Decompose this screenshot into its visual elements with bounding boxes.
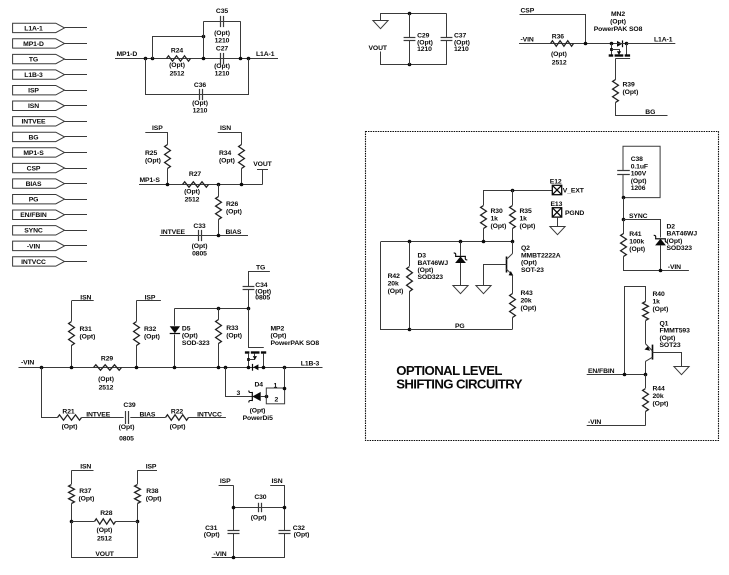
capacitor C30 [258,503,260,512]
svg-text:-VIN: -VIN [27,243,40,250]
wire Q2 base to ground [484,265,507,286]
wire -VIN to MN2 [519,43,612,45]
svg-text:(Opt): (Opt) [629,246,645,253]
junction R33 top [217,307,221,311]
svg-text:TG: TG [29,56,38,63]
wire C35 right leg [240,21,242,58]
svg-text:D3: D3 [418,253,427,260]
svg-text:(Opt): (Opt) [192,243,208,250]
junction R27 right [217,183,221,187]
svg-text:20k: 20k [653,393,664,400]
svg-text:R21: R21 [62,409,74,416]
capacitor C34 [248,272,250,287]
svg-text:100V: 100V [631,171,647,178]
svg-text:(Opt): (Opt) [251,514,267,521]
svg-text:C33: C33 [193,223,205,230]
svg-text:C29: C29 [417,33,429,40]
wire R21 bracket [42,368,58,418]
junction R26 bottom [217,234,221,238]
junction C27 right [239,57,243,61]
svg-text:VOUT: VOUT [369,45,388,52]
svg-text:(Opt): (Opt) [418,267,434,274]
svg-text:PowerDi5: PowerDi5 [243,415,273,422]
svg-text:(Opt): (Opt) [491,223,507,230]
svg-text:R31: R31 [80,326,92,333]
junction R42 bottom [408,328,412,332]
svg-text:2512: 2512 [552,60,567,67]
svg-text:2512: 2512 [99,384,114,391]
svg-text:R22: R22 [171,409,183,416]
svg-text:SOT23: SOT23 [660,342,681,349]
svg-text:3: 3 [236,390,240,397]
svg-text:D2: D2 [667,223,676,230]
svg-text:R41: R41 [629,231,641,238]
svg-text:R30: R30 [491,208,503,215]
resistor R39 [613,80,619,103]
svg-text:INTVCC: INTVCC [21,259,46,266]
svg-text:CSP: CSP [521,7,535,14]
svg-text:PowerPAK SO8: PowerPAK SO8 [271,340,320,347]
svg-text:MP1-D: MP1-D [117,51,138,58]
svg-text:VOUT: VOUT [95,551,114,558]
svg-text:BAT46WJ: BAT46WJ [418,260,449,267]
junction R30 bottom [482,240,486,244]
svg-text:2512: 2512 [185,197,200,204]
capacitor C31 [228,530,240,532]
diode D3 BAT46WJ [460,242,462,256]
svg-text:R33: R33 [226,325,238,332]
wire C38 to SYNC [623,198,625,220]
wire BIAS segment [130,417,165,419]
svg-text:PowerPAK SO8: PowerPAK SO8 [594,26,643,33]
capacitor C27 [220,53,222,64]
junction C35 branch [202,35,206,39]
svg-text:(Opt): (Opt) [219,158,235,165]
junction R24 right [202,57,206,61]
wire gnd top rail [380,13,447,15]
junction L1A-1 branch [247,57,251,61]
resistor R41 [623,220,625,234]
net flag BIAS [13,179,65,188]
svg-text:ISN: ISN [28,103,39,110]
resistor R25 [167,132,169,144]
junction C38 bottom [622,196,626,200]
svg-text:(Opt): (Opt) [610,19,626,26]
net flag CSP [13,163,65,172]
svg-text:(Opt): (Opt) [145,158,161,165]
junction C29 bottom [408,63,412,67]
resistor R21 [58,415,82,420]
resistor R28 [95,519,116,524]
junction D5 bottom [173,366,177,370]
resistor R24 [167,56,191,61]
svg-text:0805: 0805 [255,295,270,302]
svg-text:100k: 100k [629,238,644,245]
junction R32 bottom [135,366,139,370]
svg-text:C35: C35 [216,8,228,15]
junction R35 top [511,189,515,193]
net flag ISP [13,85,65,94]
resistor R30 [483,190,485,205]
transistor MP2 [248,308,250,347]
svg-text:MP1-S: MP1-S [23,150,44,157]
svg-text:C38: C38 [631,156,643,163]
svg-text:R42: R42 [388,273,400,280]
svg-text:PGND: PGND [565,210,584,217]
svg-text:(Opt): (Opt) [97,527,113,534]
junction C29 top [408,12,412,16]
wire PG bottom rail [410,329,513,331]
junction MP1-D a [144,57,148,61]
svg-text:(Opt): (Opt) [169,62,185,69]
svg-text:TG: TG [256,264,265,271]
junction MP1-D b [151,57,155,61]
svg-text:(Opt): (Opt) [250,407,266,414]
svg-text:PG: PG [455,323,465,330]
resistor R35 [512,190,514,205]
svg-text:BAT46WJ: BAT46WJ [667,231,698,238]
wire MN2 to L1A-1 [627,43,676,45]
svg-text:R34: R34 [219,150,231,157]
junction D4 box top [283,387,287,391]
svg-text:2512: 2512 [97,535,112,542]
svg-text:0805: 0805 [192,251,207,258]
svg-text:(Opt): (Opt) [631,178,647,185]
svg-text:VOUT: VOUT [253,161,272,168]
svg-text:(Opt): (Opt) [653,400,669,407]
wire MN2 gate to R39 [615,58,617,79]
wire CSP [520,15,586,44]
svg-text:ISN: ISN [80,463,91,470]
wire ISN column [284,485,286,530]
svg-text:1210: 1210 [454,46,469,53]
svg-text:(Opt): (Opt) [146,495,162,502]
svg-text:ISP: ISP [220,478,231,485]
resistor R43 [510,294,516,318]
net flag PG [13,194,65,203]
diode D2 BAT46WJ [655,239,666,246]
ground D3 [453,286,468,294]
net flag BG [13,132,65,141]
svg-text:R27: R27 [189,171,201,178]
svg-text:R36: R36 [552,33,564,40]
net flag -VIN [13,241,65,250]
svg-text:(Opt): (Opt) [214,30,230,37]
junction SYNC [622,218,626,222]
wire MP1-D main line [115,58,278,60]
wire PG rail2 [381,241,513,243]
resistor R40 [643,302,649,321]
diode D4 branch wire [226,368,253,397]
svg-text:D4: D4 [255,382,264,389]
resistor R29 [94,365,122,370]
svg-text:(Opt): (Opt) [79,495,95,502]
junction R34 bottom [240,183,244,187]
ground Q1 base [674,367,689,375]
wire rail2 left leg [381,242,410,330]
wire VOUT bottom rail [381,52,447,65]
capacitor C29 [409,14,411,38]
resistor R36 [551,41,574,46]
net flag ISN [13,101,65,110]
svg-text:(Opt): (Opt) [653,306,669,313]
wire INTVEE to C39 [82,417,124,419]
svg-text:(Opt): (Opt) [80,334,96,341]
svg-text:BG: BG [645,109,655,116]
svg-text:ISN: ISN [272,478,283,485]
svg-text:MN2: MN2 [611,11,625,18]
svg-text:2: 2 [274,397,278,404]
svg-text:R38: R38 [146,488,158,495]
net flag TG [13,54,65,63]
resistor R37 [71,470,73,484]
svg-text:INTVEE: INTVEE [161,229,186,236]
svg-text:20k: 20k [388,281,399,288]
svg-text:(Opt): (Opt) [182,333,198,340]
svg-text:(Opt): (Opt) [62,423,78,430]
wire -VIN enfbin [587,425,646,427]
junction R38 R28 [136,520,140,524]
svg-text:ISP: ISP [152,125,163,132]
capacitor C39 [125,411,127,424]
svg-text:-VIN: -VIN [213,551,226,558]
svg-text:(Opt): (Opt) [170,423,186,430]
svg-text:(Opt): (Opt) [388,288,404,295]
svg-text:(Opt): (Opt) [551,51,567,58]
svg-text:SYNC: SYNC [24,228,43,235]
wire V_EXT rail [484,190,553,192]
svg-text:MMBT2222A: MMBT2222A [521,252,561,259]
svg-text:R40: R40 [653,291,665,298]
dashed box optional level shifting circuitry [366,132,719,441]
svg-text:1210: 1210 [417,46,432,53]
junction C30 right [283,506,287,510]
svg-text:V_EXT: V_EXT [563,188,585,195]
svg-text:1210: 1210 [215,37,230,44]
net flag INTVEE [13,117,65,126]
wire C30 line [233,507,285,509]
svg-text:SOD323: SOD323 [667,245,693,252]
wire EN/FBIN [587,374,646,376]
svg-text:Q2: Q2 [521,245,530,252]
svg-text:(Opt): (Opt) [667,238,683,245]
resistor R44 [645,375,647,389]
svg-text:BIAS: BIAS [226,229,242,236]
junction R25 bottom [166,183,170,187]
svg-text:Q1: Q1 [660,320,669,327]
svg-text:-VIN: -VIN [521,36,534,43]
svg-text:1k: 1k [491,215,499,222]
terminal VOUT [262,170,264,185]
diode D5 [174,308,176,326]
resistor R33 [218,308,220,319]
svg-text:C36: C36 [194,82,206,89]
svg-text:(Opt): (Opt) [98,376,114,383]
svg-text:EN/FBIN: EN/FBIN [20,212,47,219]
junction C31 bottom [232,556,236,560]
net flag SYNC [13,226,65,235]
resistor R22 [166,415,189,420]
wire ISP column [233,485,235,530]
resistor R26 [216,197,222,220]
capacitor C37 [446,14,448,38]
svg-text:(Opt): (Opt) [226,208,242,215]
svg-text:R32: R32 [144,326,156,333]
junction CSP -VIN [584,42,588,46]
svg-text:1206: 1206 [631,185,646,192]
svg-text:R26: R26 [226,201,238,208]
svg-text:R29: R29 [101,355,113,362]
svg-text:R28: R28 [100,510,112,517]
svg-text:ISP: ISP [28,88,39,95]
svg-text:(Opt): (Opt) [271,333,287,340]
svg-text:20k: 20k [521,297,532,304]
svg-text:1k: 1k [653,298,661,305]
svg-text:C39: C39 [123,402,135,409]
junction D4 cathode [265,395,269,399]
resistor R34 [241,132,243,144]
wire Q1 base to ground [653,353,682,367]
svg-text:L1A-1: L1A-1 [654,36,673,43]
svg-text:(Opt): (Opt) [520,223,536,230]
svg-text:(Opt): (Opt) [119,424,135,431]
wire -VIN rail sync [623,270,689,272]
junction R33 bottom [217,366,221,370]
svg-text:BIAS: BIAS [140,412,156,419]
svg-text:0805: 0805 [119,435,134,442]
svg-text:-VIN: -VIN [668,264,681,271]
svg-text:-VIN: -VIN [21,359,34,366]
wire D4 box to L1B-3 [284,367,286,388]
svg-text:PG: PG [29,197,39,204]
wire -VIN main line [19,367,323,369]
svg-text:ISN: ISN [220,125,231,132]
junction C30 left [232,506,236,510]
svg-text:1210: 1210 [215,70,230,77]
junction D4 branch [224,366,228,370]
wire -VIN bottom line [212,557,285,559]
svg-text:L1B-3: L1B-3 [301,360,320,367]
net flag MP1-S [13,148,65,157]
transistor MN2 [617,41,622,47]
svg-text:C30: C30 [254,494,266,501]
svg-text:R24: R24 [171,47,183,54]
svg-text:R25: R25 [145,150,157,157]
net flag INTVCC [13,257,65,266]
wire C36 branch [146,59,249,95]
svg-text:BIAS: BIAS [26,181,42,188]
svg-text:R35: R35 [520,208,532,215]
wire TG [248,271,270,273]
wire C35 left leg [203,22,205,59]
capacitor C33 [198,230,200,241]
svg-text:MP1-D: MP1-D [23,41,44,48]
junction EN/FBIN a [623,373,627,377]
svg-text:ISP: ISP [146,463,157,470]
svg-text:(Opt): (Opt) [660,335,676,342]
svg-text:SOT-23: SOT-23 [521,267,544,274]
wire R39 to BG [616,103,668,116]
svg-text:R39: R39 [623,82,635,89]
resistor R32 [136,301,138,322]
wire C35 top rail [203,21,240,23]
svg-text:(Opt): (Opt) [521,305,537,312]
junction L1B-3 branch [283,366,287,370]
svg-text:(Opt): (Opt) [214,63,230,70]
svg-text:L1A-1: L1A-1 [256,51,275,58]
svg-text:L1A-1: L1A-1 [24,25,43,32]
svg-text:SYNC: SYNC [629,213,648,220]
junction R31 bottom [70,366,74,370]
svg-text:FMMT593: FMMT593 [660,328,691,335]
resistor R31 [71,301,73,322]
svg-text:L1B-3: L1B-3 [24,72,43,79]
junction R42 top [408,240,412,244]
svg-text:C37: C37 [454,33,466,40]
wire INTVCC segment [189,417,226,419]
svg-text:(Opt): (Opt) [144,334,160,341]
svg-text:R44: R44 [653,386,665,393]
wire MP1-S main line [139,184,263,186]
wire R24 bypass upper [153,37,204,59]
svg-text:0.1uF: 0.1uF [631,163,648,170]
ground E13 [557,217,559,226]
svg-text:(Opt): (Opt) [521,260,537,267]
resistor R42 [409,242,411,266]
svg-text:MP1-S: MP1-S [140,177,161,184]
svg-text:R37: R37 [79,488,91,495]
svg-text:MP2: MP2 [271,325,285,332]
svg-text:INTVEE: INTVEE [22,119,47,126]
svg-text:INTVCC: INTVCC [197,412,222,419]
net flag EN/FBIN [13,210,65,219]
junction D2 bottom [659,269,663,273]
svg-text:C27: C27 [216,45,228,52]
junction R35 bottom [511,240,515,244]
wire D5 R33 top line [175,308,248,310]
net flag L1B-3 [13,70,65,79]
capacitor C38 box [623,146,660,197]
svg-text:SOD323: SOD323 [418,274,444,281]
junction R37 R28 [70,520,74,524]
svg-text:SOD-323: SOD-323 [182,340,210,347]
wire VOUT bottom [72,522,138,558]
svg-text:E12: E12 [550,178,562,185]
svg-text:(Opt): (Opt) [226,333,242,340]
ground Q2 base [476,286,491,294]
ground top rail [380,14,382,21]
package box D4 [266,388,284,404]
svg-text:2512: 2512 [170,70,185,77]
resistor R38 [137,470,139,484]
wire R40 top bracket [625,287,646,375]
svg-text:1k: 1k [520,215,528,222]
junction R21 branch [40,366,44,370]
svg-text:D5: D5 [182,325,191,332]
capacitor C36 [199,89,201,100]
svg-text:BG: BG [29,134,39,141]
svg-text:CSP: CSP [27,165,41,172]
svg-text:1210: 1210 [193,108,208,115]
wire INTVEE-BIAS line [160,235,248,237]
svg-text:(Opt): (Opt) [204,531,220,538]
junction EN/FBIN b [644,373,648,377]
svg-text:R43: R43 [521,290,533,297]
svg-text:(Opt): (Opt) [184,189,200,196]
capacitor C32 [279,530,291,532]
junction C34 bottom [247,307,251,311]
net flag MP1-D [13,39,65,48]
